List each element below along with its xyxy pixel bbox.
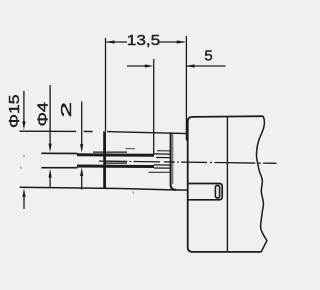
extension line right (housing face)	[185, 36, 187, 141]
hub bottom thick band	[77, 165, 154, 169]
spindle thin lines top (to boss)	[154, 153, 171, 155]
arrowhead 13,5 right	[177, 40, 186, 43]
paper speck 3	[133, 192, 135, 194]
svg-text:Φ4: Φ4	[34, 102, 51, 127]
arrowhead 2 down	[80, 144, 83, 153]
housing bottom edge	[192, 251, 261, 253]
dimension 5 line left part	[127, 65, 147, 67]
washer bottom thin line	[106, 162, 127, 164]
centre axis dash-dot	[99, 161, 277, 163]
dia15 dimension line upper	[23, 91, 25, 122]
boss inner edge line	[172, 134, 174, 184]
bushing stub bottom	[149, 171, 171, 173]
dia15 bottom extension line / boss bottom edge	[20, 187, 188, 190]
dia4 lower arrow up + tail	[49, 169, 52, 178]
spindle thin lines bottom (to boss)	[154, 164, 171, 166]
svg-text:13,5: 13,5	[127, 32, 161, 49]
svg-text:5: 5	[204, 48, 212, 65]
dia15 dimension line lower + arrow up	[22, 188, 25, 197]
hub top thick band	[77, 153, 154, 157]
slot on housing left side	[188, 184, 222, 200]
slot inner bar	[215, 185, 219, 198]
dimension 5 line right part	[186, 65, 226, 67]
arrowhead dia15 down	[22, 121, 25, 130]
housing inner vertical line	[226, 117, 228, 252]
svg-text:Φ15: Φ15	[6, 94, 23, 128]
washer top thin line	[93, 151, 127, 153]
saw disc (thin blade edge-on)	[103, 131, 106, 188]
paper speck 2	[20, 167, 22, 169]
dia4 dimension line upper	[49, 85, 51, 145]
dia15 top extension line (disc top edge), with gaps	[19, 130, 76, 132]
dim 2 dimension line upper	[81, 102, 83, 146]
arrowhead 5 right (pointing left)	[186, 64, 195, 67]
bushing stub top	[157, 150, 170, 152]
arrowhead 13,5 left	[106, 40, 115, 43]
housing top edge	[192, 115, 263, 118]
paper speck 1	[23, 155, 25, 157]
shaft top edge thin (dia4 zone)	[41, 152, 77, 154]
arrowhead 5 left (pointing right)	[145, 64, 154, 67]
small artifact dash above shaft	[126, 148, 136, 150]
dimension 13,5 line	[107, 41, 128, 43]
housing block left edge	[188, 117, 193, 252]
extension line left (disc left face)	[105, 38, 107, 131]
svg-text:2: 2	[58, 102, 75, 118]
break (wavy) line right	[256, 116, 266, 252]
bearing boss left edge	[171, 132, 177, 190]
shaft bottom edge thin (dia4 zone)	[41, 167, 77, 169]
dim 2 lower arrow up + tail	[80, 167, 83, 176]
arrowhead dia4 down	[49, 144, 52, 153]
extension line middle (shaft end)	[153, 59, 155, 155]
